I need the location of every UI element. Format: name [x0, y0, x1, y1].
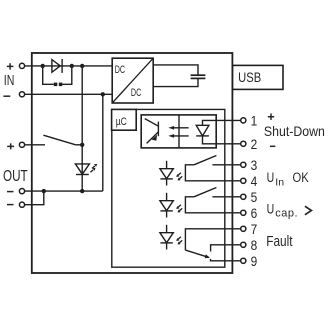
svg-text:OUT: OUT	[3, 166, 28, 184]
svg-text:5: 5	[251, 189, 258, 205]
svg-text:7: 7	[251, 221, 258, 237]
svg-text:6: 6	[251, 205, 258, 221]
svg-text:8: 8	[251, 237, 258, 253]
svg-text:In: In	[275, 176, 284, 188]
svg-text:DC: DC	[115, 64, 126, 76]
svg-text:U: U	[267, 170, 275, 186]
svg-text:IN: IN	[4, 72, 15, 88]
svg-text:4: 4	[251, 173, 258, 189]
svg-text:9: 9	[251, 253, 258, 269]
svg-text:2: 2	[251, 136, 258, 152]
svg-text:Shut-Down: Shut-Down	[264, 124, 325, 140]
svg-text:Fault: Fault	[266, 233, 293, 250]
svg-text:3: 3	[251, 157, 258, 173]
svg-text:U: U	[267, 201, 275, 217]
svg-text:OK: OK	[293, 170, 310, 185]
svg-text:cap.: cap.	[275, 207, 298, 219]
svg-text:µC: µC	[116, 116, 127, 128]
svg-text:1: 1	[251, 113, 258, 129]
svg-text:USB: USB	[238, 70, 261, 85]
svg-text:DC: DC	[131, 87, 142, 99]
